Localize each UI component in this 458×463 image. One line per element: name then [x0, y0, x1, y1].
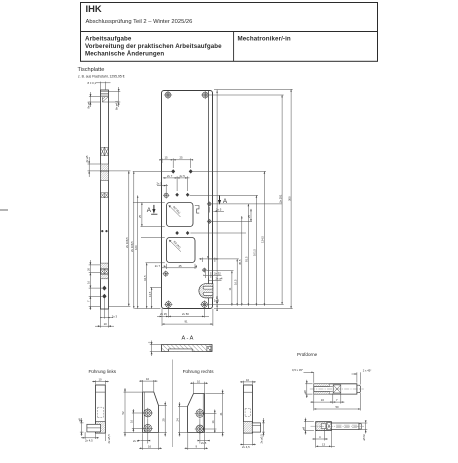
svg-text:2x 50: 2x 50 [182, 312, 189, 316]
svg-text:24: 24 [176, 418, 180, 422]
svg-text:10: 10 [197, 379, 201, 383]
svg-text:2x 3: 2x 3 [112, 314, 118, 318]
svg-text:2x 7: 2x 7 [155, 264, 161, 268]
corner hole bottom-right [200, 300, 208, 308]
svg-text:Führung rechts: Führung rechts [183, 369, 215, 374]
hidden hole dashed [98, 407, 104, 417]
svg-text:10: 10 [99, 378, 103, 382]
svg-text:Arbeitsaufgabe: Arbeitsaufgabe [85, 36, 132, 43]
side view dimension top (8) [96, 82, 111, 90]
header table [81, 32, 378, 62]
corner hole top-left [164, 91, 172, 99]
svg-text:2x 45: 2x 45 [215, 296, 219, 303]
svg-text:⌀8: ⌀8 [302, 426, 306, 430]
svg-text:IHK: IHK [86, 3, 102, 14]
stacked hatched blocks bottom [101, 263, 109, 268]
svg-text:25: 25 [138, 214, 142, 218]
header box IHK [81, 3, 378, 32]
svg-text:2x 5: 2x 5 [201, 441, 207, 445]
svg-text:Mechatroniker/-in: Mechatroniker/-in [238, 36, 291, 43]
svg-text:z. B. aus Flachstahl, 1295,95: z. B. aus Flachstahl, 1295,95 € [78, 75, 125, 79]
section marker A left [147, 205, 158, 214]
svg-text:8x ⌀4: 8x ⌀4 [87, 101, 91, 108]
left dim 8x d4 [89, 92, 101, 107]
svg-text:2x ⌀5: 2x ⌀5 [85, 155, 89, 162]
A-A bottom recess [169, 349, 193, 351]
foot dims [240, 418, 265, 446]
Z step detail right of cutout1 [195, 206, 199, 214]
pin2 bottom dims [312, 429, 335, 448]
right mid dim 2x5 for edge holes [209, 207, 224, 213]
hole 1 [143, 408, 153, 418]
top dim [240, 381, 256, 385]
side view top edge line [96, 391, 106, 393]
svg-text:Vorbereitung der praktischen A: Vorbereitung der praktischen Arbeitsaufg… [85, 43, 222, 50]
svg-text:Prüfdorne: Prüfdorne [297, 352, 318, 357]
svg-text:⌀8: ⌀8 [78, 418, 82, 422]
dim row2 ext [176, 176, 178, 191]
svg-text:10: 10 [246, 378, 250, 382]
small hole mark row5 [101, 230, 107, 232]
svg-text:15: 15 [165, 156, 169, 160]
A-A left thickness dim [150, 341, 161, 357]
svg-text:2x ⌀4: 2x ⌀4 [216, 277, 223, 281]
svg-text:50: 50 [336, 405, 340, 409]
pin1 bottom dims [310, 393, 360, 411]
svg-text:2x ⌀5,5: 2x ⌀5,5 [107, 434, 111, 444]
svg-text:134,5: 134,5 [261, 236, 265, 243]
side view outline [244, 385, 253, 433]
svg-text:10: 10 [104, 322, 108, 326]
keyhole detail dims [199, 258, 222, 284]
pin2 center line [311, 425, 365, 427]
svg-text:Abschlussprüfung Teil 2 – Wint: Abschlussprüfung Teil 2 – Winter 2025/26 [86, 19, 193, 25]
side view top dim [92, 380, 109, 384]
hidden hole dashed [245, 409, 250, 417]
foot dims [80, 418, 99, 439]
diamond holes row1 [171, 169, 193, 235]
svg-text:45: 45 [179, 264, 183, 268]
hole 2 [143, 423, 153, 433]
svg-text:0,5 x 45°: 0,5 x 45° [292, 368, 303, 372]
hole 1 [195, 408, 205, 418]
svg-text:2x 15: 2x 15 [160, 312, 167, 316]
pin2 shaft [331, 423, 359, 430]
corner hole top-right [201, 91, 209, 99]
svg-text:2x 5: 2x 5 [157, 181, 163, 185]
svg-text:91,5: 91,5 [245, 256, 249, 262]
mid hole left lower d5 [163, 271, 169, 277]
svg-text:26: 26 [86, 267, 90, 271]
svg-text:Mechanische Änderungen: Mechanische Änderungen [85, 51, 164, 58]
pin1 center line [310, 388, 364, 390]
svg-text:45,5: 45,5 [238, 259, 242, 265]
svg-text:16,5: 16,5 [233, 279, 237, 285]
svg-text:2x 4,5: 2x 4,5 [242, 445, 250, 449]
svg-text:101,5: 101,5 [253, 249, 257, 256]
mid hole left d5 [163, 192, 169, 198]
svg-text:8 ± 0,1: 8 ± 0,1 [88, 81, 97, 85]
pin2 end cap [359, 424, 361, 429]
svg-text:52: 52 [121, 411, 125, 415]
svg-text:2x 4,5: 2x 4,5 [85, 439, 93, 443]
svg-text:Tischplatte: Tischplatte [78, 67, 105, 73]
cutout 2 [167, 238, 196, 263]
plate outline [162, 91, 213, 309]
cutout 2 radius leader [169, 240, 181, 252]
svg-text:91: 91 [185, 320, 189, 324]
foot block left [87, 424, 101, 432]
svg-text:2x 32: 2x 32 [214, 272, 221, 276]
svg-text:16: 16 [148, 444, 152, 448]
A-A right end slot [207, 347, 211, 352]
pin1 body [314, 384, 357, 394]
pin1 left dia dim [305, 380, 312, 398]
svg-text:Führung links: Führung links [89, 369, 117, 374]
svg-text:2x 5: 2x 5 [133, 439, 139, 443]
title Tischplatte [78, 67, 125, 79]
dim 2x5 leader [165, 184, 167, 193]
svg-text:41: 41 [219, 412, 223, 416]
left dim cluster vertical lines [133, 171, 246, 308]
left bottom dim cluster [89, 260, 103, 310]
svg-text:A - A: A - A [182, 336, 194, 342]
cutout 1 radius leader [169, 205, 181, 217]
front view outline [188, 394, 205, 433]
keyhole slot detail bottom right [199, 284, 213, 298]
block row2 [101, 147, 109, 155]
cutout 1 [167, 203, 194, 227]
svg-text:16: 16 [86, 280, 90, 284]
svg-text:25: 25 [180, 156, 184, 160]
svg-text:11: 11 [228, 287, 232, 290]
svg-text:2x 5: 2x 5 [180, 174, 186, 178]
svg-text:8x ⌀4,1: 8x ⌀4,1 [115, 100, 119, 110]
side view hatched foot section [96, 422, 106, 433]
svg-text:16: 16 [130, 419, 134, 423]
hole 2 [195, 424, 205, 434]
top dim 15/25 ext lines [172, 158, 174, 168]
left dim 2x d5 mid [88, 157, 101, 177]
svg-text:2x ⌀5,5: 2x ⌀5,5 [260, 434, 264, 444]
fold mark left edge [0, 209, 8, 211]
svg-text:2x 291: 2x 291 [278, 194, 282, 203]
svg-text:166: 166 [134, 245, 138, 250]
right dim 8x d4.1 [108, 87, 120, 107]
svg-text:62,5: 62,5 [143, 275, 147, 281]
corner hole bottom-left [164, 300, 172, 308]
front dims [178, 382, 224, 450]
svg-text:13: 13 [322, 442, 326, 446]
right dim cluster [190, 89, 293, 311]
block row3 hatched [101, 164, 109, 171]
foot block right [252, 423, 260, 432]
diamond hole marks [102, 286, 106, 291]
svg-text:2x 168,5: 2x 168,5 [125, 237, 129, 248]
svg-text:2 x 45°: 2 x 45° [363, 368, 372, 372]
pin1 cross hole [333, 385, 341, 393]
section marker A right [218, 196, 228, 206]
hatched foot section [243, 422, 252, 433]
bottom dims of side view [95, 299, 114, 328]
svg-text:⌀8: ⌀8 [303, 390, 307, 394]
divider line between bottom drawings [172, 360, 174, 448]
svg-text:16: 16 [321, 398, 325, 402]
front dims [124, 380, 167, 450]
counterbore block top [101, 92, 109, 97]
svg-text:2x 7: 2x 7 [167, 174, 173, 178]
block row4 small [101, 193, 109, 198]
svg-text:10: 10 [146, 377, 150, 381]
svg-text:16: 16 [211, 420, 215, 424]
small holes right edge [207, 201, 212, 206]
pin2 left dia dim [304, 418, 314, 435]
inner step line [208, 91, 210, 309]
bottom dims [157, 308, 213, 326]
side view outline [96, 385, 106, 433]
pin2 right dia dim [360, 423, 368, 434]
side view outline [101, 90, 109, 309]
small hole above keyhole [202, 268, 207, 273]
svg-text:25: 25 [247, 214, 251, 218]
cutout bottom dims [161, 264, 197, 269]
svg-text:29: 29 [161, 418, 165, 422]
svg-text:300: 300 [287, 196, 291, 201]
pin2 body left section [316, 422, 332, 431]
pin1 section hatch left [314, 384, 330, 394]
svg-text:14,5: 14,5 [148, 291, 152, 297]
front view outline [143, 392, 159, 433]
svg-text:⌀5h6: ⌀5h6 [362, 434, 366, 441]
pin1 left chamfer [314, 384, 316, 394]
